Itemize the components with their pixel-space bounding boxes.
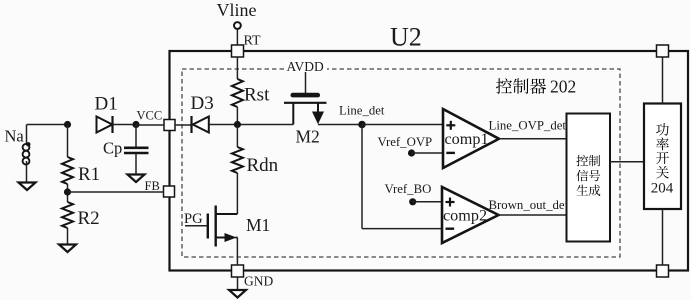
wire AVDD to M2 gate xyxy=(305,72,307,94)
ground under Na xyxy=(19,183,36,191)
pin FB xyxy=(164,186,175,197)
pin bottom-right xyxy=(657,265,669,277)
comp1 minus mark xyxy=(446,152,455,154)
svg-text:U2: U2 xyxy=(390,23,422,52)
wire VCC pin to D3 xyxy=(175,124,192,126)
wire VCC node to pin xyxy=(136,124,164,126)
wire input rail left xyxy=(27,124,68,126)
node dot rail/R1 xyxy=(64,121,71,128)
svg-text:FB: FB xyxy=(145,179,160,193)
node dot Vref_BO xyxy=(409,198,416,205)
diode D3 xyxy=(192,116,209,133)
label AVDD xyxy=(285,59,327,74)
wire Line_det branch down xyxy=(361,125,363,229)
node dot Line_det xyxy=(358,121,366,129)
svg-text:Vref_BO: Vref_BO xyxy=(385,182,432,196)
comp2 plus mark xyxy=(446,198,455,207)
svg-text:Vref_OVP: Vref_OVP xyxy=(378,135,433,149)
block control signal generation xyxy=(567,114,611,242)
wire coil to ground xyxy=(26,161,28,183)
resistor R1 xyxy=(62,157,73,184)
svg-text:R1: R1 xyxy=(78,164,100,185)
svg-text:Na: Na xyxy=(5,127,25,146)
svg-text:Vline: Vline xyxy=(217,0,257,20)
pin top-right xyxy=(657,45,669,57)
op-amp comp1 xyxy=(443,109,499,168)
svg-text:VCC: VCC xyxy=(137,109,163,123)
comp2 minus mark xyxy=(446,227,455,229)
label 控制信号生成 xyxy=(576,155,600,196)
wire R2 to ground xyxy=(67,228,69,245)
wire Rst to node xyxy=(236,107,238,125)
wire D1 to VCC node xyxy=(113,124,137,126)
wire Cp to ground xyxy=(135,153,137,175)
svg-text:comp2: comp2 xyxy=(443,207,487,225)
capacitor Cp xyxy=(124,148,149,153)
chip outline U2 xyxy=(170,51,689,271)
wire Vline to RT pin xyxy=(236,29,238,45)
resistor Rdn xyxy=(232,147,243,173)
op-amp comp2 xyxy=(442,187,499,243)
wire power switch to bottom pin xyxy=(662,209,664,265)
label 控制器 202 xyxy=(496,77,576,97)
wire Vref_OVP to comp1- xyxy=(412,152,444,154)
node dot Vref_OVP xyxy=(408,149,415,156)
svg-text:M2: M2 xyxy=(296,127,320,147)
controller 202 dashed box xyxy=(182,69,620,257)
wire D3 to center node xyxy=(209,124,293,126)
pin GND xyxy=(232,265,244,277)
wire Vref_BO to comp2+ xyxy=(413,201,442,203)
transistor M2 xyxy=(284,93,327,125)
terminal Vline xyxy=(234,22,241,29)
wire comp1 output xyxy=(499,138,567,140)
inductor Na coil xyxy=(23,142,31,164)
svg-text:Line_OVP_det: Line_OVP_det xyxy=(489,118,567,132)
label 功率开关 204 xyxy=(651,123,674,196)
svg-text:RT: RT xyxy=(244,34,261,49)
svg-text:Cp: Cp xyxy=(103,139,122,158)
wire M1 source to GND pin xyxy=(236,238,238,266)
transistor M1 xyxy=(208,206,238,247)
diode D1 xyxy=(97,116,113,133)
svg-text:GND: GND xyxy=(244,274,273,289)
pin VCC xyxy=(164,120,175,131)
pin RT xyxy=(232,45,244,57)
svg-text:Rdn: Rdn xyxy=(247,155,279,176)
resistor Rst xyxy=(232,79,243,107)
svg-text:Brown_out_det: Brown_out_det xyxy=(489,198,569,212)
wire control to power switch xyxy=(610,161,644,163)
wire Na drop xyxy=(26,125,28,145)
svg-text:Line_det: Line_det xyxy=(339,104,385,118)
svg-text:D3: D3 xyxy=(191,93,214,114)
svg-text:PG: PG xyxy=(184,211,203,227)
wire top pin to power switch xyxy=(662,57,664,104)
svg-text:D1: D1 xyxy=(95,94,118,115)
wire branch to comp2- xyxy=(362,228,442,230)
wire Rdn to M1 drain xyxy=(236,173,238,214)
ground under Cp xyxy=(128,175,145,183)
svg-text:204: 204 xyxy=(651,180,674,196)
block power switch 204 xyxy=(644,104,681,210)
node dot R1/R2/FB xyxy=(64,188,71,195)
resistor R2 xyxy=(62,202,73,228)
wire node to Rdn xyxy=(236,125,238,148)
svg-text:202: 202 xyxy=(550,77,576,97)
wire M2 to Line_det node xyxy=(318,124,362,126)
svg-text:M1: M1 xyxy=(246,215,270,235)
wire VCC node down to Cp xyxy=(135,125,137,148)
wire comp2 output xyxy=(499,214,567,216)
wire PG to M1 gate xyxy=(185,225,207,227)
svg-text:R2: R2 xyxy=(78,208,100,229)
ground GND xyxy=(229,290,246,298)
comp1 plus mark xyxy=(446,121,455,130)
wire R1 to node FB xyxy=(67,184,69,202)
wire RT pin to Rst xyxy=(236,57,238,79)
node dot Rst/D3/Rdn xyxy=(234,121,241,128)
wire node to R1 xyxy=(67,125,69,158)
svg-text:Rst: Rst xyxy=(244,85,270,106)
wire Line_det to comp1+ xyxy=(362,124,443,126)
ground under R2 xyxy=(59,245,76,253)
node dot VCC xyxy=(132,121,139,128)
svg-text:AVDD: AVDD xyxy=(287,59,325,74)
svg-text:comp1: comp1 xyxy=(445,130,489,148)
wire GND pin to ground xyxy=(237,277,239,290)
wire FB feedback xyxy=(68,191,164,193)
